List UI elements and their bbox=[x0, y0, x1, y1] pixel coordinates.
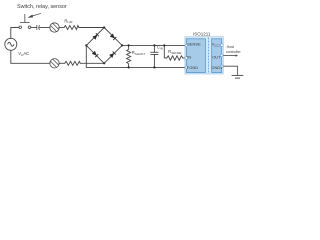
pin VCC1 bbox=[221, 44, 223, 46]
diode D1 (top-left edge) bbox=[92, 33, 99, 40]
svg-text:controller: controller bbox=[226, 50, 242, 54]
IC U1 ISO1211 outer body bbox=[185, 37, 223, 74]
pin FGND bbox=[185, 66, 187, 68]
node: Rshunt bottom bbox=[128, 66, 130, 68]
node: Rshunt top bbox=[128, 44, 130, 46]
arrow from label to switch bbox=[27, 13, 41, 17]
svg-text:RLIM: RLIM bbox=[64, 18, 73, 24]
svg-text:ISO1211: ISO1211 bbox=[193, 31, 211, 36]
svg-text:VCC1: VCC1 bbox=[212, 42, 221, 48]
wire: switch to cap contact bbox=[31, 27, 36, 29]
svg-text:VinAC: VinAC bbox=[18, 51, 29, 57]
pin SENSE bbox=[185, 44, 187, 46]
ground (logic side) bbox=[232, 75, 244, 78]
wire: top-left corner to switch bbox=[11, 28, 19, 39]
pin GND1 bbox=[221, 65, 223, 67]
wire: cap contact to sensor lamp 1 bbox=[40, 27, 50, 29]
switch (relay contact) bbox=[19, 14, 31, 29]
pin IN bbox=[185, 57, 187, 59]
sensor lamp symbol 1 (hatched circle) bbox=[46, 21, 61, 36]
resistor Rsense (horizontal) bbox=[164, 45, 185, 60]
svg-text:RSHUNT: RSHUNT bbox=[132, 50, 146, 56]
wire: bridge left corner down to field ground rail bbox=[86, 45, 185, 67]
wire: lamp 2 to bottom resistor bbox=[59, 62, 65, 64]
wire: lamp 1 to Rlim bbox=[59, 27, 64, 29]
capacitive contact symbol bbox=[37, 25, 40, 30]
node: Cin bottom bbox=[153, 66, 155, 68]
svg-text:SENSE: SENSE bbox=[187, 42, 201, 47]
wire: bottom resistor to bridge bottom corner bbox=[80, 62, 104, 64]
isolation barrier bbox=[208, 38, 210, 74]
wire: source bottom to lamp 2 bbox=[11, 50, 50, 63]
resistor Rshunt (vertical) bbox=[127, 45, 131, 67]
capacitor Cin (vertical) bbox=[150, 45, 158, 67]
node: Rsense branch bbox=[163, 44, 165, 46]
AC source VinAC bbox=[5, 38, 17, 50]
pin OUT bbox=[221, 54, 223, 56]
wire: Rlim to bridge top corner bbox=[79, 27, 104, 29]
svg-text:Host: Host bbox=[227, 45, 234, 49]
bridge corner junction dots bbox=[85, 26, 123, 64]
svg-text:GND1: GND1 bbox=[211, 65, 223, 70]
diode D2 (top-right edge) bbox=[110, 34, 117, 41]
wire: OUT arrow to host controller bbox=[223, 54, 238, 56]
svg-text:OUT: OUT bbox=[212, 54, 221, 59]
svg-text:RSENSE: RSENSE bbox=[168, 49, 181, 55]
ISO1211 field-side block bbox=[186, 39, 205, 73]
diode D4 (bottom-right edge) bbox=[109, 51, 116, 58]
sensor lamp symbol 2 (hatched circle) bbox=[46, 57, 61, 72]
svg-text:FGND: FGND bbox=[187, 65, 198, 70]
wire: bridge right corner to SENSE pin bbox=[122, 44, 185, 46]
svg-text:Switch, relay, sensor: Switch, relay, sensor bbox=[17, 4, 67, 10]
ISO1211 logic-side block bbox=[212, 39, 222, 73]
svg-text:CIN: CIN bbox=[157, 45, 163, 51]
diode D3 (bottom-left edge) bbox=[92, 51, 99, 58]
bridge rectifier diamond bbox=[86, 28, 122, 64]
wire: GND1 to logic ground bbox=[223, 66, 237, 75]
svg-text:IN: IN bbox=[187, 54, 191, 59]
node: Cin top bbox=[153, 44, 155, 46]
bottom series resistor bbox=[65, 61, 81, 65]
